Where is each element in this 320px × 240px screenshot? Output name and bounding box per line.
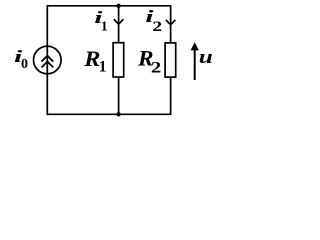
wire: middle branch R1 — [118, 6, 120, 115]
current source U0 circle — [34, 46, 62, 74]
svg-text:u: u — [199, 46, 213, 67]
voltage u arrow shaft — [194, 48, 196, 81]
wire: top horizontal — [47, 5, 172, 7]
current source arrow chevron upper — [42, 56, 54, 62]
junction dot: top node — [116, 4, 120, 8]
junction dot: bottom node — [116, 112, 120, 116]
resistor R1 body — [113, 43, 124, 77]
svg-text:2: 2 — [151, 59, 161, 77]
svg-text:0: 0 — [21, 57, 28, 72]
current i1 arrowhead — [114, 19, 124, 24]
current source arrow chevron lower — [42, 62, 54, 68]
svg-text:2: 2 — [152, 18, 162, 34]
svg-text:1: 1 — [101, 19, 108, 34]
resistor R2 body — [165, 43, 176, 77]
current i2 arrowhead — [166, 20, 176, 25]
wire: bottom horizontal — [47, 113, 172, 115]
wire: left branch (through source) — [46, 6, 48, 115]
svg-text:1: 1 — [99, 59, 107, 76]
wire: right branch R2 — [170, 6, 172, 115]
voltage u arrowhead — [191, 42, 199, 50]
